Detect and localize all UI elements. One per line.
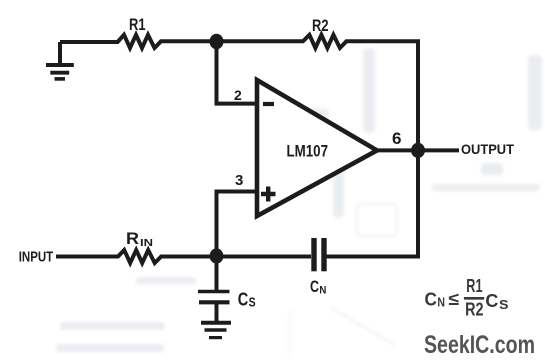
svg-text:SeekIC.com: SeekIC.com <box>424 331 535 359</box>
svg-text:INPUT: INPUT <box>19 249 54 266</box>
svg-text:S: S <box>249 295 256 309</box>
svg-text:OUTPUT: OUTPUT <box>461 141 514 157</box>
svg-text:C: C <box>485 290 498 311</box>
svg-text:S: S <box>499 297 509 312</box>
svg-text:IN: IN <box>140 238 153 249</box>
svg-text:R1: R1 <box>129 16 146 34</box>
svg-text:R: R <box>126 230 139 248</box>
svg-text:6: 6 <box>392 129 402 148</box>
svg-text:C: C <box>425 288 437 309</box>
svg-text:R1: R1 <box>466 275 482 296</box>
svg-text:C: C <box>310 277 319 296</box>
svg-text:N: N <box>437 295 445 309</box>
svg-text:R2: R2 <box>312 17 329 35</box>
svg-text:≤: ≤ <box>448 289 459 309</box>
svg-text:3: 3 <box>235 172 243 189</box>
svg-text:N: N <box>319 284 326 296</box>
svg-text:2: 2 <box>234 87 242 103</box>
svg-text:LM107: LM107 <box>287 142 329 161</box>
svg-text:R2: R2 <box>465 298 483 319</box>
svg-text:C: C <box>238 289 249 309</box>
